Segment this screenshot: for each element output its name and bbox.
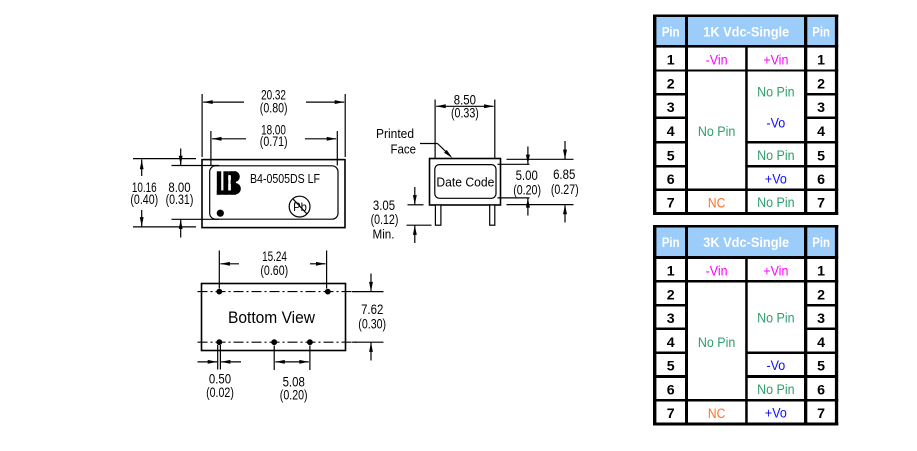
table 3K grid — [653, 225, 838, 426]
svg-text:(0.80): (0.80) — [260, 101, 288, 116]
table 1K col3 cells — [757, 85, 795, 212]
dimension 5.08 (0.20) pin pitch — [274, 346, 310, 403]
svg-text:-Vo: -Vo — [766, 358, 785, 374]
svg-text:(0.31): (0.31) — [166, 192, 194, 207]
svg-text:Face: Face — [391, 142, 417, 157]
dimension 18.00 (0.71) width — [211, 123, 337, 166]
table 1K row1 cells — [706, 53, 789, 69]
svg-text:(0.30): (0.30) — [358, 317, 386, 332]
svg-text:+Vo: +Vo — [765, 172, 787, 188]
svg-text:1: 1 — [667, 53, 675, 69]
svg-text:5: 5 — [817, 148, 825, 164]
top view inner rounded face — [210, 166, 338, 219]
svg-text:(0.60): (0.60) — [260, 263, 288, 278]
svg-text:15.24: 15.24 — [262, 249, 287, 264]
svg-text:7: 7 — [667, 406, 675, 422]
svg-text:No Pin: No Pin — [698, 124, 736, 140]
svg-text:5: 5 — [817, 359, 825, 375]
svg-text:2: 2 — [667, 287, 675, 303]
svg-text:7: 7 — [667, 196, 675, 212]
dimension 8.50 (0.33) — [435, 93, 495, 158]
right pin leg — [490, 205, 495, 225]
svg-text:(0.71): (0.71) — [260, 134, 288, 149]
upper centerline — [198, 291, 358, 293]
svg-text:4: 4 — [667, 335, 675, 351]
table 3K col2 No Pin merged cell — [698, 335, 736, 351]
svg-text:4: 4 — [817, 124, 825, 140]
svg-text:2: 2 — [817, 76, 825, 92]
logo LB mark — [217, 171, 241, 194]
table 3K col3 cells — [757, 311, 795, 422]
svg-text:3: 3 — [667, 311, 675, 327]
dimension 0.50 (0.02) pin diameter — [198, 345, 242, 400]
dimension 10.16 (0.40) height — [130, 159, 196, 227]
svg-text:(0.12): (0.12) — [371, 212, 399, 227]
dimension 8.00 (0.31) height — [166, 149, 219, 238]
svg-text:4: 4 — [817, 335, 825, 351]
svg-text:7: 7 — [817, 196, 825, 212]
svg-text:Pin: Pin — [662, 235, 680, 251]
table 1K header text — [662, 24, 830, 40]
svg-text:5: 5 — [667, 359, 675, 375]
lower centerline — [198, 341, 358, 343]
svg-text:No Pin: No Pin — [757, 311, 795, 327]
svg-text:Min.: Min. — [373, 226, 395, 241]
svg-text:Bottom View: Bottom View — [228, 309, 315, 327]
svg-text:NC: NC — [708, 406, 725, 422]
svg-text:Pin: Pin — [812, 235, 830, 251]
svg-text:(0.33): (0.33) — [451, 105, 479, 120]
svg-text:6: 6 — [667, 172, 675, 188]
svg-text:-Vin: -Vin — [706, 264, 728, 280]
side view outer outline — [430, 159, 501, 206]
Pb-free symbol — [289, 196, 310, 217]
svg-text:(0.27): (0.27) — [551, 182, 579, 197]
svg-text:+Vin: +Vin — [763, 264, 788, 280]
svg-text:6: 6 — [667, 383, 675, 399]
svg-text:Pin: Pin — [812, 24, 830, 40]
svg-text:1: 1 — [667, 264, 675, 280]
table 1K header background — [653, 15, 838, 46]
dimension 6.85 (0.27) — [507, 141, 579, 223]
bottom view outline — [202, 284, 346, 351]
dimension 5.00 (0.20) — [498, 147, 541, 216]
svg-text:No Pin: No Pin — [757, 382, 795, 398]
svg-text:No Pin: No Pin — [698, 335, 736, 351]
svg-text:6: 6 — [817, 383, 825, 399]
svg-text:1: 1 — [817, 53, 825, 69]
svg-text:5: 5 — [667, 148, 675, 164]
svg-text:(0.20): (0.20) — [513, 183, 541, 198]
table 1K pin numbers — [667, 53, 825, 212]
svg-text:No Pin: No Pin — [757, 148, 795, 164]
svg-text:No Pin: No Pin — [757, 195, 795, 211]
svg-text:7: 7 — [817, 406, 825, 422]
table 1K col2 No Pin merged cell — [698, 124, 736, 140]
table 3K NC cell — [708, 406, 725, 422]
date code label — [436, 174, 494, 189]
svg-text:3: 3 — [667, 100, 675, 116]
table 3K row1 cells — [706, 264, 789, 280]
pin dots — [216, 289, 330, 345]
bottom view label — [228, 309, 315, 327]
left pin leg — [435, 205, 441, 225]
svg-text:3: 3 — [817, 100, 825, 116]
svg-text:6.85: 6.85 — [553, 167, 575, 182]
side view inner rounded face — [435, 165, 496, 199]
svg-text:No Pin: No Pin — [757, 85, 795, 101]
top view outer case outline — [202, 160, 345, 228]
svg-text:3.05: 3.05 — [373, 198, 395, 213]
dimension 15.24 (0.60) — [219, 249, 326, 289]
svg-text:-Vin: -Vin — [706, 53, 728, 69]
table 3K header background — [653, 225, 838, 256]
svg-text:Date Code: Date Code — [436, 174, 494, 189]
dimension 3.05 (0.12) min pin length — [371, 187, 432, 243]
printed face note and leader — [376, 126, 452, 158]
svg-text:3: 3 — [817, 311, 825, 327]
svg-text:1K Vdc-Single: 1K Vdc-Single — [703, 24, 789, 40]
svg-text:2: 2 — [817, 287, 825, 303]
dimension 7.62 (0.30) — [352, 274, 386, 361]
svg-text:NC: NC — [708, 196, 725, 212]
svg-text:3K Vdc-Single: 3K Vdc-Single — [703, 235, 789, 251]
svg-text:+Vin: +Vin — [763, 53, 788, 69]
svg-text:+Vo: +Vo — [765, 406, 787, 422]
table 1K NC cell — [708, 196, 725, 212]
part number label — [250, 172, 320, 186]
svg-text:(0.20): (0.20) — [280, 388, 308, 403]
svg-text:5.00: 5.00 — [516, 168, 538, 183]
svg-text:(0.40): (0.40) — [130, 192, 158, 207]
svg-text:Printed: Printed — [376, 126, 414, 141]
svg-text:1: 1 — [817, 264, 825, 280]
svg-text:(0.02): (0.02) — [206, 385, 234, 400]
svg-text:2: 2 — [667, 76, 675, 92]
svg-text:6: 6 — [817, 172, 825, 188]
dimension 20.32 (0.80) width — [202, 87, 345, 157]
table 3K pin numbers — [667, 264, 825, 423]
table 3K header text — [662, 235, 830, 251]
pin1 dot marker — [217, 210, 224, 217]
svg-text:-Vo: -Vo — [766, 116, 785, 132]
svg-text:7.62: 7.62 — [361, 302, 383, 317]
svg-text:Pin: Pin — [662, 24, 680, 40]
svg-text:4: 4 — [667, 124, 675, 140]
table 1K grid — [653, 15, 838, 216]
svg-text:B4-0505DS LF: B4-0505DS LF — [250, 172, 320, 186]
